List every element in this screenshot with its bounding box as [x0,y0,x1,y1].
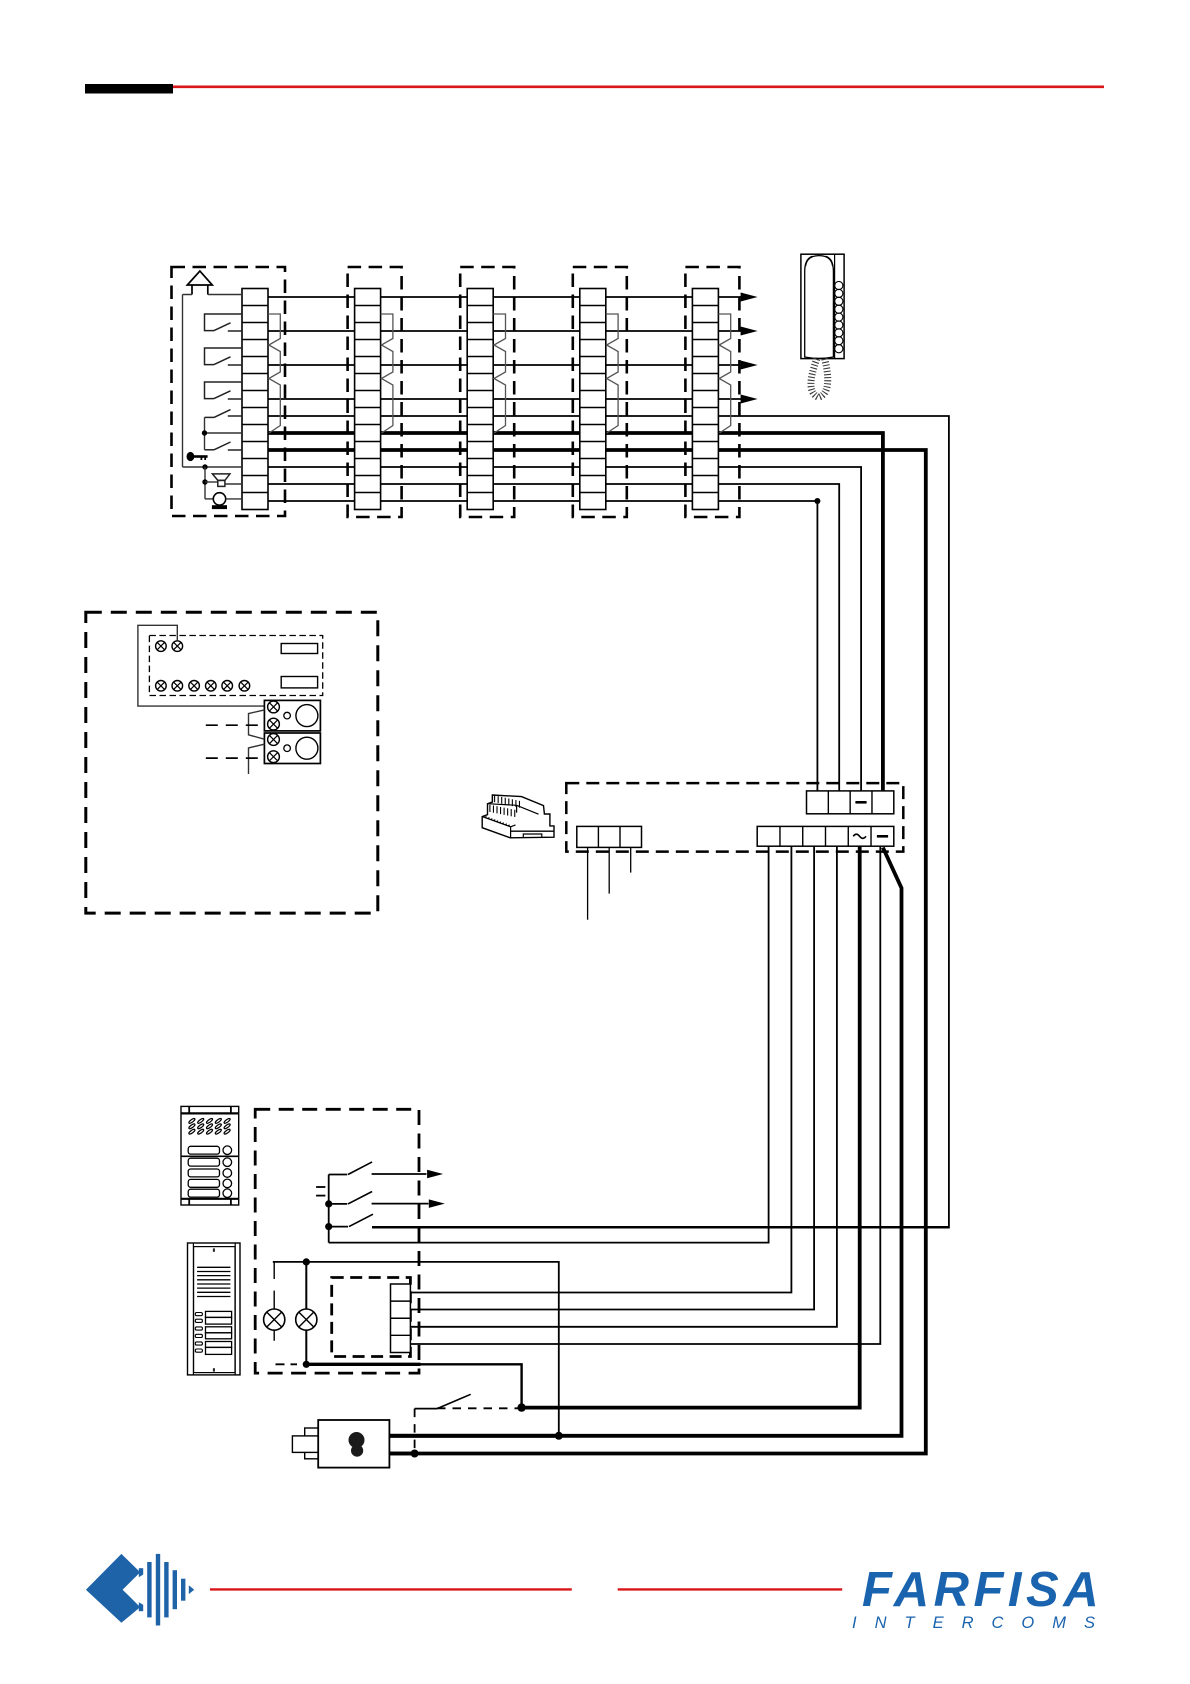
wire common to terminal 11 [183,466,243,468]
internal jumper wire of intercom unit 1 [268,314,280,433]
wire board terminal A2 to relay 1 [138,625,265,706]
wire to microphone [205,498,213,500]
lamp return wire to pushbutton junction [420,1364,522,1407]
door module terminal strip [391,1284,411,1353]
wire PSU - terminal to lock wire A (bold) [389,848,901,1436]
header red rule [173,86,1104,89]
ACI logo blue diamond [86,1554,140,1623]
door release pushbutton [415,1408,438,1410]
wire buzzer to terminal 1 [183,294,243,296]
switch 5 of unit 1 [205,449,215,451]
dashed wire to relay2 lower terminal [206,757,265,759]
intercom unit 5 dashed enclosure [685,267,739,517]
wire bus row 4 (terminal 7) [242,398,742,400]
door switch 1 [329,1174,348,1176]
arrow to further intercoms row 1 [741,293,758,302]
wire bus row 10 down to PSU terminal 1 [242,501,817,791]
ACI logo white notch band [117,1573,146,1606]
wall handset (intercom phone) [801,254,844,397]
module circuit board (fine dashed) [149,636,322,696]
board screw terminal B3 [189,681,200,692]
footer red rule right [618,1588,843,1590]
junction pushbutton on lock wire B [411,1450,419,1458]
wire switch4 to junction [204,417,206,449]
board screw terminal B4 [206,681,217,692]
internal jumper wire of intercom unit 3 [493,314,505,433]
junction [202,464,207,469]
wire bus row 3 (terminal 5) [242,364,742,366]
relay block 1 [264,700,320,731]
jumper relay2 stub down [249,744,265,774]
internal jumper wire of intercom unit 5 [718,314,730,433]
arrow door switch 2 [429,1199,445,1208]
terminal strip of intercom unit 2 [355,289,381,510]
terminal strip of intercom unit 3 [467,289,493,510]
wire speaker to terminal 12 [225,483,242,485]
wire bus row 9 down to PSU terminal 2 [242,484,839,791]
board screw terminal B1 [156,681,167,692]
dashed wire pushbutton to junction [437,1407,522,1409]
wire bus row 2 (terminal 3) [242,330,742,332]
microphone of unit 1 [213,493,225,505]
junction [202,430,207,435]
capacitor marks [316,1186,325,1188]
door switch 3 [325,1223,332,1230]
wire PSU terminal 1 to door-station switch common [329,846,769,1242]
PSU upper terminal strip (4 way) [807,791,894,814]
wire PSU terminal 4 to module terminal 3 [410,846,837,1327]
board component block 2 [281,677,317,688]
microphone base [212,505,227,509]
wire bus row 5 down to door-station switch [242,416,949,1228]
door panel pictorial 1 (speaker panel) [181,1106,239,1205]
door module dashed enclosure [332,1278,411,1357]
intercom unit 1 dashed enclosure [172,267,286,516]
door panel pictorial 2 (button panel) [188,1243,241,1375]
lamp 1 (optional, dashed) [273,1262,275,1279]
dashed wire to relay1 lower terminal [206,724,265,726]
junction lamp wire on lock wire A [555,1432,563,1440]
buzzer (arrow symbol) of unit 1 [187,271,212,285]
wire PSU terminal 2 to module terminal 1 [410,846,791,1292]
mains stub wire 1 [587,847,589,919]
header black bar [85,84,173,94]
board screw terminal B2 [172,681,183,692]
junction on row 10 corner [814,498,820,504]
relay block 2 [264,733,320,764]
arrow to further intercoms row 2 [741,327,758,336]
board screw terminal B5 [222,681,233,692]
wire bus row 6 (bold) down to PSU terminal 4 [242,433,883,791]
wire down to speaker/mic [204,467,206,499]
internal jumper wire of intercom unit 2 [381,314,393,433]
terminal strip of intercom unit 1 [242,289,268,510]
arrow door switch 1 [427,1170,443,1179]
arrow to further intercoms row 3 [741,361,758,370]
internal jumper wire of intercom unit 4 [606,314,618,433]
mains stub wire 2 [608,847,610,893]
jumper relay1 to relay2 [249,710,265,739]
wire PSU ~ terminal to lock pushbutton junction (bold) [522,846,860,1407]
intercom unit 4 dashed enclosure [573,267,627,517]
wire bus row 8 down to PSU terminal 3 [242,467,861,791]
lock wire A (bold) [389,1434,560,1438]
wire PSU - terminal to module terminal 4 [410,846,880,1344]
junction lamp return [303,1361,310,1368]
switch 3 of unit 1 [205,382,243,399]
switch common vertical [328,1175,330,1243]
terminal strip of intercom unit 4 [580,289,606,510]
wire to speaker [205,481,218,483]
wire left common vertical [182,295,184,468]
switch 2 of unit 1 [205,348,243,365]
dashed wire pushbutton to lock wire B [414,1409,416,1454]
board screw terminal A1 [156,641,167,652]
wire junction to terminal 9 [205,432,243,434]
transformer (DIN rail PSU, isometric) [482,795,554,838]
junction pushbutton/lamp/PSU (bold) [517,1403,525,1411]
lamp return wire (inside box, bold) [306,1363,420,1366]
PSU mains terminal strip (3 way) [577,826,642,847]
door station dashed enclosure [255,1109,419,1373]
electric lock [292,1420,389,1468]
footer red rule left [210,1588,572,1590]
intercom unit 2 dashed enclosure [348,267,402,517]
PSU lower terminal strip (6 way) [757,826,894,846]
board component block 1 [281,644,317,654]
junction [202,479,207,484]
arrow to further intercoms row 4 [741,395,758,404]
speaker of unit 1 [212,474,230,481]
power supply dashed enclosure [566,783,903,852]
lamp 2 [305,1262,307,1309]
wire microphone to terminal 13 [226,498,242,500]
junction lamp wire [303,1258,310,1265]
board screw terminal A2 [172,641,183,652]
wire bus row 1 (terminal 1) [242,296,742,298]
lock wire B (bold) [389,1452,414,1456]
door-speaker module dashed enclosure [86,612,378,913]
ACI logo striped diamond [139,1554,194,1626]
wire bus row 7 (bold) down to lock wire B [242,450,926,1454]
svg-text:INTERCOMS: INTERCOMS [852,1614,1113,1632]
switch 4 of unit 1 [205,416,215,418]
svg-text:FARFISA: FARFISA [862,1563,1103,1617]
board screw terminal B6 [239,681,250,692]
door switch 2 [325,1200,332,1207]
key symbol (door release) [187,452,195,461]
lamp supply wire [273,1262,559,1436]
mains stub wire 3 [630,847,632,872]
switch 1 of unit 1 [205,314,243,331]
intercom unit 3 dashed enclosure [460,267,514,517]
wire PSU terminal 3 to module terminal 2 [410,846,814,1309]
terminal strip of intercom unit 5 [692,289,718,510]
